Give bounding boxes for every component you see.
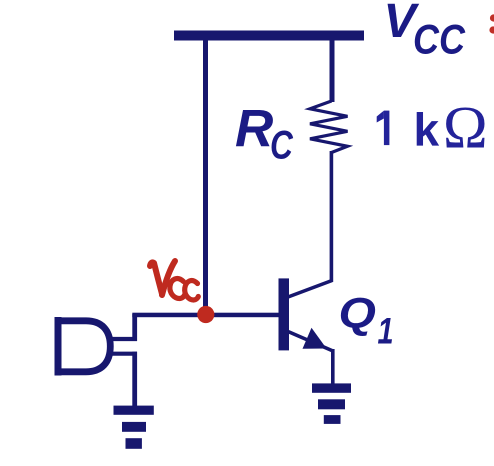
transistor Q1: base bar [279, 278, 290, 350]
svg-text:CC: CC [413, 16, 466, 63]
gate symbol (D shape) [56, 317, 137, 376]
wire: gate stub down to ground [132, 352, 137, 407]
svg-text:R: R [235, 100, 273, 159]
label 1 kOhm [377, 111, 390, 146]
ground (emitter side) [312, 383, 351, 424]
svg-text:1: 1 [378, 311, 394, 352]
node: red junction dot [197, 306, 214, 323]
handwritten red Vcc label [150, 261, 198, 300]
transistor Q1: emitter diagonal [288, 332, 333, 352]
wire: rail to node (left drop) [203, 40, 208, 317]
wire: rail to resistor top [330, 40, 335, 102]
svg-text:C: C [270, 123, 294, 167]
gate upper output stub [109, 337, 137, 341]
red colon marks (cut off at right edge) [490, 14, 494, 21]
resistor R_C 1k zigzag [310, 101, 348, 153]
wire: emitter to ground [331, 349, 335, 385]
label Q1 [339, 289, 376, 337]
svg-text:k: k [414, 104, 440, 156]
wire: resistor bottom to collector corner [330, 151, 334, 282]
ground (gate side) [114, 406, 154, 449]
wire: base horizontal (node to base) [132, 313, 278, 318]
transistor Q1: emitter arrow [303, 328, 327, 349]
power rail Vcc [174, 31, 364, 41]
gate lower output stub [111, 352, 137, 356]
transistor Q1: collector diagonal [288, 281, 332, 298]
svg-text:Ω: Ω [443, 95, 488, 161]
svg-text:Q: Q [339, 289, 376, 337]
wire: gate stub up to base wire [132, 314, 137, 341]
